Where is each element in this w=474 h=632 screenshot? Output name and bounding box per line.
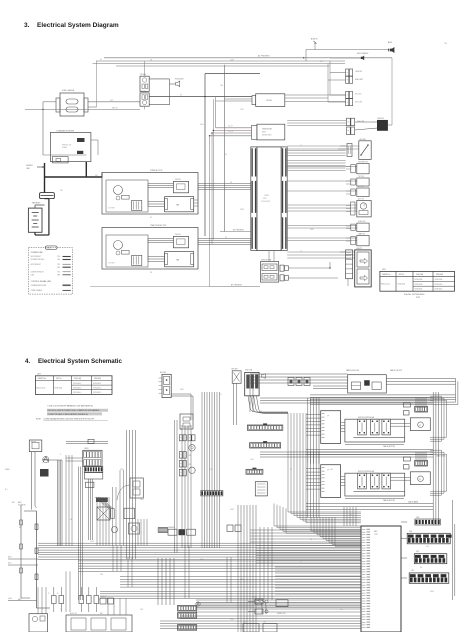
svg-text:5B: 5B xyxy=(180,429,182,431)
svg-text:2/97: 2/97 xyxy=(416,297,421,299)
svg-text:0.5Y: 0.5Y xyxy=(210,469,213,471)
svg-text:CLIP: CLIP xyxy=(444,43,447,45)
svg-text:CABLE (MAIN): CABLE (MAIN) xyxy=(408,501,419,504)
svg-text:8B: 8B xyxy=(150,217,152,219)
svg-text:AP5: AP5 xyxy=(58,273,61,276)
svg-text:PUB (USA): PUB (USA) xyxy=(416,273,424,276)
svg-text:COMMUNICATION LINE: COMMUNICATION LINE xyxy=(31,284,46,287)
svg-text:CPU: CPU xyxy=(263,198,267,200)
svg-text:CN9: CN9 xyxy=(188,464,191,466)
svg-text:MOTOR CONTROLLER: MOTOR CONTROLLER xyxy=(358,471,375,473)
svg-text:GM: GM xyxy=(176,260,180,262)
svg-text:0.5L: 0.5L xyxy=(260,411,263,413)
svg-text:FRAME: FRAME xyxy=(5,468,10,471)
svg-text:0.85R: 0.85R xyxy=(180,389,184,391)
svg-text:5W: 5W xyxy=(310,539,313,541)
svg-text:F1: F1 xyxy=(48,593,50,595)
svg-text:ATT SW: ATT SW xyxy=(358,185,364,188)
svg-text:UNIT No.: UNIT No. xyxy=(56,378,62,380)
svg-text:C1: C1 xyxy=(300,145,302,147)
svg-text:P50: P50 xyxy=(58,256,61,258)
svg-text:CN A: CN A xyxy=(416,516,419,519)
svg-text:LEVEL UP: LEVEL UP xyxy=(355,71,362,73)
svg-text:CHASSIS No.: CHASSIS No. xyxy=(38,377,47,380)
svg-text:BRAKE SW: BRAKE SW xyxy=(100,595,108,598)
svg-text:UNIT: UNIT xyxy=(262,131,266,133)
svg-text:0.85B: 0.85B xyxy=(240,579,244,581)
svg-text:P20: P20 xyxy=(58,271,61,273)
svg-text:SOL LOW: SOL LOW xyxy=(355,102,362,104)
svg-text:CHASSIS No.: CHASSIS No. xyxy=(382,273,391,276)
svg-text:(BLK): (BLK) xyxy=(8,563,12,565)
svg-text:LVL DW: LVL DW xyxy=(228,131,234,133)
svg-text:2G: 2G xyxy=(60,609,62,611)
svg-text:PUMP MOTOR: PUMP MOTOR xyxy=(150,170,163,172)
svg-text:0.85Y: 0.85Y xyxy=(110,100,114,102)
svg-text:MINI SPEAKER: MINI SPEAKER xyxy=(357,52,369,55)
svg-text:FUEL GAUGE: FUEL GAUGE xyxy=(62,89,75,92)
svg-text:SOL ULD: SOL ULD xyxy=(355,94,362,96)
svg-text:2Y: 2Y xyxy=(220,394,222,396)
svg-text:AT PRESENT: AT PRESENT xyxy=(231,283,243,286)
svg-text:APS: APS xyxy=(12,501,15,504)
svg-text:TILT SW: TILT SW xyxy=(358,176,364,178)
svg-text:POWER LINE: POWER LINE xyxy=(31,252,44,254)
svg-text:0.5B: 0.5B xyxy=(320,61,323,63)
svg-text:1.25R: 1.25R xyxy=(200,559,204,561)
svg-text:BATTERY: BATTERY xyxy=(32,202,41,205)
svg-text:GOV: GOV xyxy=(265,195,270,197)
svg-text:(FRAME GND): (FRAME GND) xyxy=(277,612,286,615)
svg-text:0.5G: 0.5G xyxy=(330,469,333,471)
svg-text:PUB (USA): PUB (USA) xyxy=(74,377,82,380)
svg-text:CN C: CN C xyxy=(416,551,419,553)
svg-text:CONTROL SIGNAL LINE: CONTROL SIGNAL LINE xyxy=(31,280,52,283)
svg-text:8W: 8W xyxy=(150,272,153,274)
svg-text:Electrical System Schematic: Electrical System Schematic xyxy=(38,358,122,365)
svg-text:0.85W: 0.85W xyxy=(430,591,435,593)
svg-text:LVL UP: LVL UP xyxy=(228,126,233,128)
svg-text:LAMP SW: LAMP SW xyxy=(358,233,365,236)
svg-text:0.85L: 0.85L xyxy=(270,429,274,431)
svg-text:I/F: I/F xyxy=(327,416,329,418)
svg-text:F/BOX: F/BOX xyxy=(84,448,88,450)
svg-text:(B+): (B+) xyxy=(5,489,8,491)
svg-text:ACC VR: ACC VR xyxy=(358,198,365,201)
svg-text:CABLE (CHG FUS): CABLE (CHG FUS) xyxy=(346,369,360,372)
svg-text:CONNECTR IN/OUT: CONNECTR IN/OUT xyxy=(31,271,44,273)
svg-text:CN D: CN D xyxy=(411,570,414,572)
svg-text:95733-01100 -: 95733-01100 - xyxy=(73,383,82,385)
svg-text:C2: C2 xyxy=(300,251,302,253)
svg-text:ALM: ALM xyxy=(388,41,392,44)
svg-text:OTHER SIGNALS: OTHER SIGNALS xyxy=(31,289,42,292)
svg-text:1.25R: 1.25R xyxy=(230,59,234,61)
svg-text:20R: 20R xyxy=(60,190,62,192)
svg-text:0.85R: 0.85R xyxy=(120,469,124,471)
svg-text:J6: J6 xyxy=(300,561,302,563)
svg-text:0.85Y: 0.85Y xyxy=(140,609,144,611)
svg-text:FB10-15-20-25: FB10-15-20-25 xyxy=(381,284,390,286)
svg-text:95733-02100 -: 95733-02100 - xyxy=(73,387,82,389)
svg-text:PRINTED CIR: PRINTED CIR xyxy=(62,145,71,147)
svg-text:CABLE (MOTOR): CABLE (MOTOR) xyxy=(383,499,395,502)
svg-text:1) WIRE DIAGRAM SHOWING CONDIT: 1) WIRE DIAGRAM SHOWING CONDITION: WIRE … xyxy=(44,417,95,420)
svg-text:1.25G: 1.25G xyxy=(230,619,234,621)
svg-text:KEY SW: KEY SW xyxy=(232,369,238,371)
svg-text:CN8: CN8 xyxy=(188,455,191,457)
svg-text:M: M xyxy=(419,479,421,481)
svg-text:Electrical System Diagram: Electrical System Diagram xyxy=(37,22,119,29)
svg-text:FB10-15-20-25: FB10-15-20-25 xyxy=(37,387,46,389)
svg-text:SW: SW xyxy=(19,527,22,529)
svg-text:Pub.No. 95733-04100: Pub.No. 95733-04100 xyxy=(404,294,425,296)
svg-text:95733-03100 -: 95733-03100 - xyxy=(415,289,424,291)
svg-text:CONT: CONT xyxy=(374,534,378,536)
svg-text:AT PRESENT: AT PRESENT xyxy=(233,228,245,231)
svg-text:95733-02101 -: 95733-02101 - xyxy=(435,284,444,286)
svg-text:2B: 2B xyxy=(70,519,72,521)
svg-text:UNIT No.: UNIT No. xyxy=(399,274,405,276)
svg-text:95733-00100: 95733-00100 xyxy=(55,387,63,389)
svg-text:PWR RLY: PWR RLY xyxy=(175,234,181,236)
svg-text:95733-03100 -: 95733-03100 - xyxy=(73,392,82,394)
svg-text:SET UP: SET UP xyxy=(112,107,118,109)
svg-text:3.: 3. xyxy=(24,22,30,29)
svg-text:1.25B: 1.25B xyxy=(240,109,244,111)
svg-text:(RED): (RED) xyxy=(8,557,12,559)
svg-text:95733-00100: 95733-00100 xyxy=(398,284,406,286)
svg-text:P30: P30 xyxy=(58,264,61,266)
svg-text:0.5R: 0.5R xyxy=(340,609,343,611)
svg-text:BRK: BRK xyxy=(100,613,103,615)
svg-text:5B: 5B xyxy=(225,154,227,156)
svg-text:2R: 2R xyxy=(290,469,292,471)
svg-text:4.: 4. xyxy=(25,358,30,365)
svg-text:TIMER/LEVEL: TIMER/LEVEL xyxy=(262,129,272,131)
svg-text:CHG CON: CHG CON xyxy=(245,370,252,372)
svg-text:95733-02101 -: 95733-02101 - xyxy=(93,387,102,389)
svg-text:COMBINATION METER: COMBINATION METER xyxy=(56,130,75,133)
svg-text:0.85W: 0.85W xyxy=(230,509,235,511)
svg-text:CN E: CN E xyxy=(243,622,246,624)
svg-text:J1: J1 xyxy=(60,454,62,456)
svg-text:DIODE: DIODE xyxy=(252,597,256,599)
svg-text:CN F: CN F xyxy=(263,622,266,624)
svg-text:R50: R50 xyxy=(58,267,61,269)
svg-text:J5: J5 xyxy=(260,539,262,541)
svg-text:LIST: LIST xyxy=(382,269,387,271)
svg-text:PB BUZZER: PB BUZZER xyxy=(175,78,185,80)
svg-text:© LINE COLOR DENOTE HARNESS CO: © LINE COLOR DENOTE HARNESS CODE (SEE PA… xyxy=(47,405,93,408)
svg-text:0.5B: 0.5B xyxy=(426,546,429,548)
svg-text:2R: 2R xyxy=(180,95,182,97)
svg-text:0.5W: 0.5W xyxy=(100,574,104,576)
svg-text:PRE (EUR): PRE (EUR) xyxy=(436,274,444,276)
svg-text:2W: 2W xyxy=(420,567,423,569)
svg-text:HORN SW: HORN SW xyxy=(358,221,366,223)
svg-text:I/F: I/F xyxy=(327,470,329,472)
svg-text:ACC/SW: ACC/SW xyxy=(160,371,167,374)
svg-text:CN B: CN B xyxy=(409,531,412,533)
svg-text:FWD/REV SW: FWD/REV SW xyxy=(358,162,368,164)
svg-text:ACCEL SW: ACCEL SW xyxy=(70,612,78,615)
svg-text:F2: F2 xyxy=(57,593,59,595)
svg-text:0.85G: 0.85G xyxy=(140,499,144,501)
svg-text:95733-01100 -: 95733-01100 - xyxy=(435,279,444,281)
svg-text:PWR RLY: PWR RLY xyxy=(175,179,181,181)
svg-text:LINE: LINE xyxy=(31,274,34,276)
svg-text:0.85G: 0.85G xyxy=(200,124,204,126)
svg-text:GOV-B: GOV-B xyxy=(266,100,272,102)
svg-text:MARK: MARK xyxy=(47,247,51,250)
svg-text:B50: B50 xyxy=(58,259,61,261)
svg-text:(GND): (GND) xyxy=(8,598,12,600)
svg-text:95733-02100 -: 95733-02100 - xyxy=(415,284,424,286)
svg-text:0.85B: 0.85B xyxy=(310,229,314,231)
svg-text:HIGH LIMIT: HIGH LIMIT xyxy=(355,79,363,81)
svg-text:LIST: LIST xyxy=(37,373,42,375)
svg-text:(CONNECTOR SIDE): (CONNECTOR SIDE) xyxy=(31,259,45,261)
svg-text:OIL PUMP: OIL PUMP xyxy=(108,208,115,210)
svg-text:RLY(A): RLY(A) xyxy=(141,73,147,76)
svg-text:95733-03102 -: 95733-03102 - xyxy=(93,392,102,394)
svg-text:MOTOR CONTROLLER: MOTOR CONTROLLER xyxy=(358,417,375,419)
svg-text:FLASHER: FLASHER xyxy=(168,526,174,529)
svg-text:1.25B: 1.25B xyxy=(250,459,254,461)
svg-text:PRE (EUR): PRE (EUR) xyxy=(94,378,102,380)
svg-text:2B: 2B xyxy=(350,514,352,516)
svg-text:FUSIBLE: FUSIBLE xyxy=(26,165,33,167)
svg-text:0.85W: 0.85W xyxy=(240,209,245,211)
svg-text:2B: 2B xyxy=(100,59,102,61)
svg-text:95733-01100 -: 95733-01100 - xyxy=(93,383,102,385)
svg-text:MAIN: MAIN xyxy=(374,530,377,533)
svg-text:OIL PUMP: OIL PUMP xyxy=(108,263,115,265)
svg-text:CABLE (MAIN): CABLE (MAIN) xyxy=(436,455,446,458)
svg-text:95733-03102 -: 95733-03102 - xyxy=(435,289,444,291)
svg-text:MOTOR IN/OUT: MOTOR IN/OUT xyxy=(31,264,41,266)
svg-text:(LEVEL UNIT): (LEVEL UNIT) xyxy=(262,135,272,137)
svg-text:CABLE (CN) PCS: CABLE (CN) PCS xyxy=(390,369,402,372)
svg-text:1.25W: 1.25W xyxy=(90,541,95,543)
svg-text:(API): (API) xyxy=(18,501,22,504)
svg-text:AT PRESENT: AT PRESENT xyxy=(258,55,271,58)
svg-text:95733-01100 -: 95733-01100 - xyxy=(415,279,424,281)
svg-text:5R: 5R xyxy=(225,237,227,239)
svg-text:GM: GM xyxy=(176,205,180,207)
svg-text:M: M xyxy=(419,425,421,427)
svg-text:20B: 20B xyxy=(95,175,97,177)
svg-text:NOTE:: NOTE: xyxy=(36,418,42,420)
svg-text:0.85L: 0.85L xyxy=(220,85,224,87)
svg-text:TRACTION MOTOR: TRACTION MOTOR xyxy=(150,224,167,227)
svg-text:(CORE UNIT): (CORE UNIT) xyxy=(261,201,271,203)
svg-text:ACM IN: ACM IN xyxy=(311,38,318,41)
svg-text:2L: 2L xyxy=(155,554,157,556)
svg-text:LINK: LINK xyxy=(26,168,30,170)
svg-text:CABLE (MOTOR): CABLE (MOTOR) xyxy=(383,445,395,448)
svg-text:MOTOR IN/OUT: MOTOR IN/OUT xyxy=(31,256,41,258)
svg-text:SOLENOID: SOLENOID xyxy=(18,505,27,507)
svg-text:CHG FUS: CHG FUS xyxy=(377,118,384,120)
